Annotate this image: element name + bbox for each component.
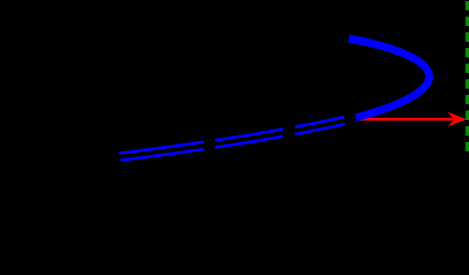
unstable branch dashed double line, upper stroke <box>119 117 345 160</box>
upper stroke dash 2 <box>215 129 283 140</box>
stable branch: thick blue fold curve <box>349 39 429 118</box>
red arrow shaft <box>358 118 456 121</box>
lower stroke dash 2 <box>215 136 283 147</box>
red arrowhead <box>447 112 466 127</box>
upper stroke dash 1 <box>119 142 204 153</box>
upper stroke dash 3 <box>295 117 344 127</box>
green dashed vertical line (parameter threshold) <box>466 1 469 151</box>
lower stroke dash 3 <box>295 124 345 134</box>
unstable branch dashed double line, lower stroke dash 1 <box>121 149 205 160</box>
